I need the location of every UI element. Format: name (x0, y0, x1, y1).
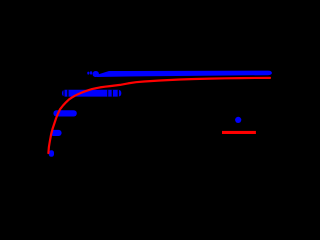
data run B (blue dots merged) (50, 130, 61, 136)
data run A (blue dot, lowest) (49, 150, 54, 157)
legend fit line (red) (222, 131, 256, 134)
data run E leading dots (87, 71, 99, 77)
legend data marker (blue dot) (235, 117, 241, 123)
data run D (blue dots merged band) (62, 90, 121, 97)
data run E main band (dense blue dots) (97, 71, 272, 77)
red fit curve (48, 78, 270, 153)
chart canvas (0, 0, 291, 204)
data run C (blue dots merged) (53, 110, 76, 116)
